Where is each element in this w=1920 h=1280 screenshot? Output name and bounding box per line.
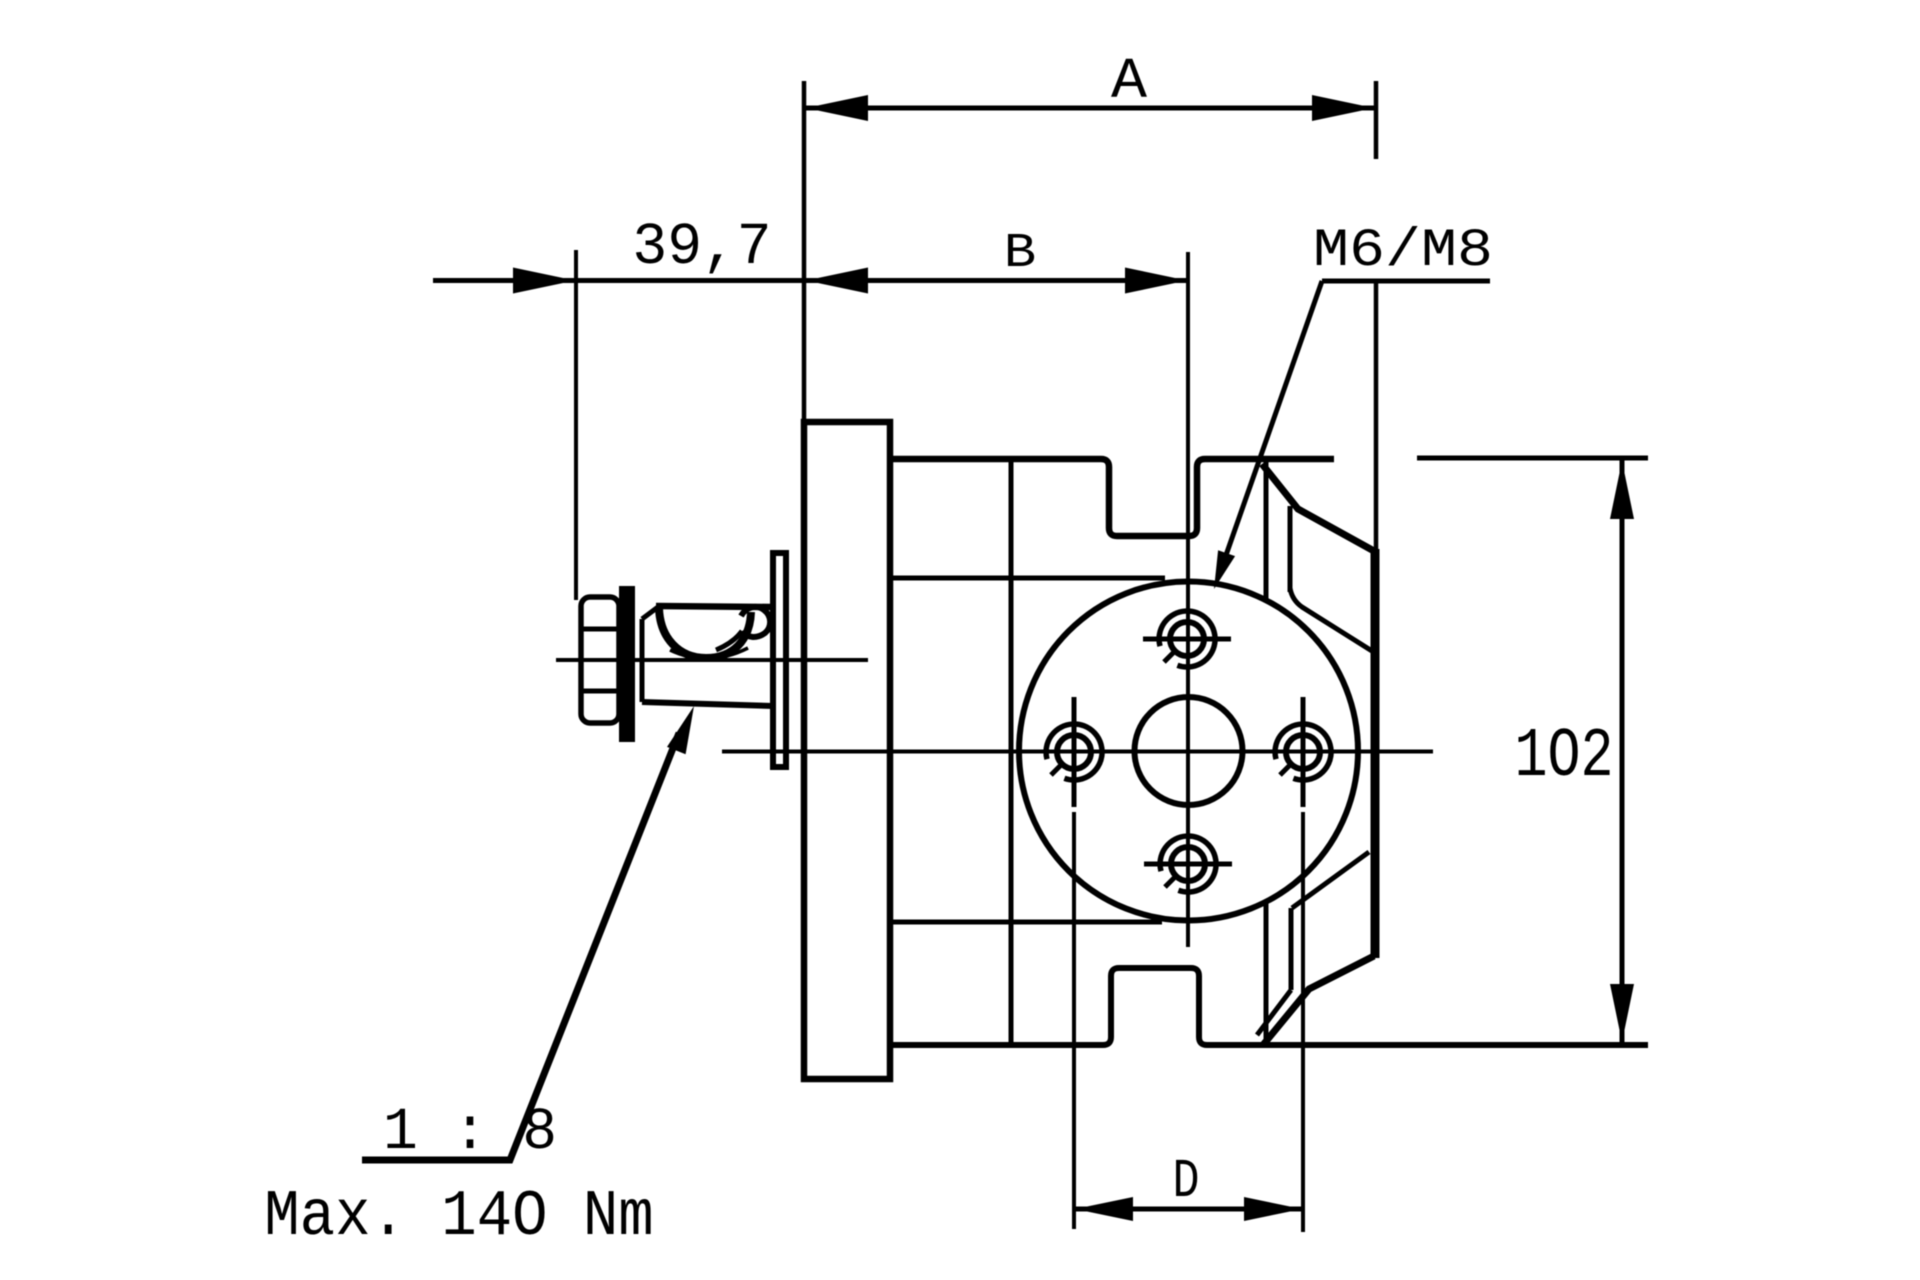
svg-text:39,7: 39,7 (632, 214, 771, 282)
woodruff key (bowl) (659, 608, 751, 658)
internal horizontal line top (gear bore top) (891, 576, 1165, 581)
label 39,7 (632, 214, 771, 282)
dimension A extension line left (802, 81, 807, 422)
rear cover rear face (thick) (1371, 549, 1380, 958)
rear port boss diagonal upper (1290, 588, 1372, 651)
right bolt hole (1275, 724, 1331, 780)
M6/M8 leader arrow to top bolt (1218, 281, 1322, 578)
mounting flange plate (804, 422, 890, 1079)
left bolt hole (1046, 724, 1102, 780)
hex nut (581, 597, 619, 723)
rear cover bottom chamfer (1263, 956, 1374, 1045)
top bolt hole M6/M8 (1159, 611, 1215, 667)
svg-text:1 : 8: 1 : 8 (383, 1099, 557, 1167)
body top edge (891, 459, 1334, 536)
rear cover joint vertical upper segment (1264, 459, 1269, 599)
M6/M8 vertical extension below label (1374, 283, 1379, 551)
label 1 : 8 (383, 1099, 557, 1167)
D right extension line (1301, 812, 1305, 1232)
label 102 (1514, 717, 1613, 796)
port face outline circle (1019, 582, 1358, 921)
svg-text:1O2: 1O2 (1514, 717, 1613, 796)
shaft centerline (556, 658, 868, 662)
internal horizontal line bottom (gear bore bottom) (891, 920, 1162, 925)
internal vertical joint line (front cover / housing) (1009, 459, 1014, 1045)
dimension B extension / port vertical centerline (1186, 252, 1190, 947)
svg-text:M6/M8: M6/M8 (1313, 221, 1493, 282)
key end squiggle (741, 607, 770, 637)
leader arrow to taper (362, 733, 679, 1160)
center hole (1135, 697, 1243, 805)
D left extension line (1072, 812, 1076, 1229)
rear port boss diagonal lower-down (1257, 990, 1291, 1035)
port face horizontal centerline (722, 750, 1433, 754)
label M6/M8 (1313, 221, 1493, 282)
dimension B line (805, 278, 1188, 283)
label Max. 140 Nm (264, 1180, 653, 1254)
dimension A line (805, 106, 1375, 111)
102 top extension line (1417, 456, 1648, 461)
rear cover top chamfer (1262, 464, 1374, 551)
svg-text:Max. 14O Nm: Max. 14O Nm (264, 1180, 653, 1254)
dimension 39,7 extension line (574, 250, 578, 600)
rear port boss diagonal lower-up (1292, 852, 1369, 908)
bottom bolt hole (1160, 836, 1216, 892)
shaft taper top left (642, 607, 658, 619)
rear port boss vertical lower (1289, 908, 1294, 990)
label A (1111, 49, 1148, 115)
keyway slot top line (656, 606, 771, 607)
svg-text:D: D (1173, 1150, 1200, 1212)
body bottom edge with notch (891, 968, 1648, 1045)
dimension 39,7 line (433, 278, 805, 283)
dimension A extension line right (1374, 81, 1379, 159)
D dimension line (1074, 1207, 1303, 1212)
keyway slot bottom thin arc (670, 648, 748, 659)
shaft collar / seal flange (773, 553, 786, 767)
shaft taper bottom line (642, 702, 773, 706)
rear cover joint vertical lower segment (1264, 902, 1269, 1045)
shaft end face (640, 619, 645, 702)
102 dimension line (1620, 460, 1625, 1043)
key tail curve (716, 631, 742, 650)
washer (619, 586, 635, 742)
svg-text:A: A (1111, 49, 1148, 115)
rear port boss vertical upper (1288, 506, 1293, 592)
label B (1004, 226, 1036, 281)
M6/M8 underline (1322, 279, 1490, 284)
label D (1173, 1150, 1200, 1212)
svg-text:B: B (1004, 226, 1036, 281)
